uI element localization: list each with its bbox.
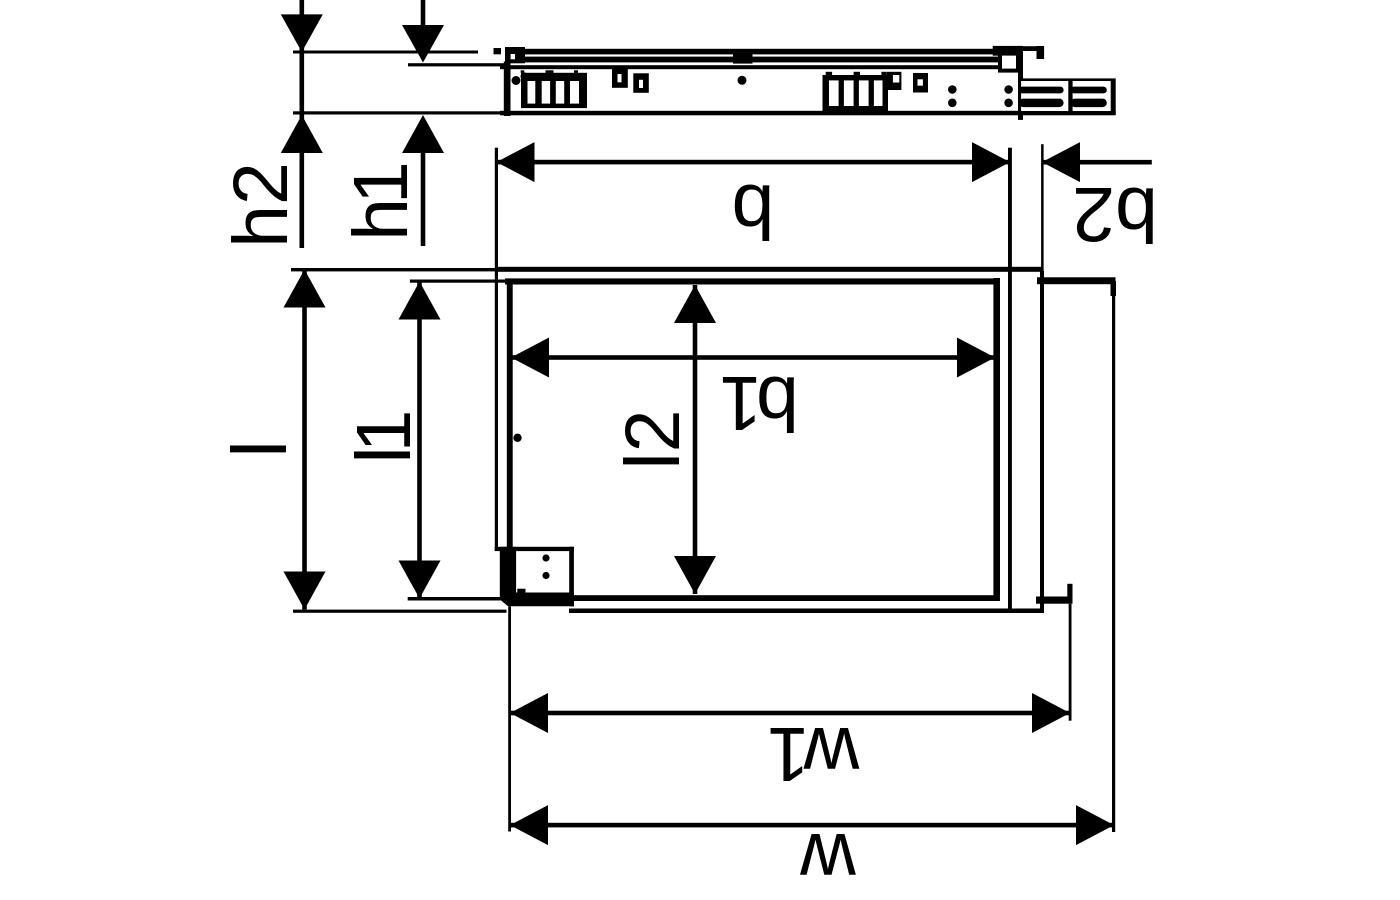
- bracket lug 4: [913, 73, 928, 93]
- dimension w line: [510, 823, 1114, 828]
- top rail lower bar: [509, 57, 1003, 63]
- l2 top arrow: [674, 285, 716, 323]
- w right extension line: [1112, 296, 1115, 832]
- inner frame right bar: [993, 278, 1000, 601]
- svg-text:w: w: [800, 817, 857, 900]
- grill 1: [521, 73, 587, 108]
- svg-text:w1: w1: [770, 711, 861, 797]
- top right wall bracket: [1037, 277, 1116, 284]
- w left arrow: [510, 805, 548, 845]
- inner frame left bar: [507, 280, 513, 601]
- l top arrow: [284, 270, 326, 308]
- top right end cap square: [1037, 46, 1045, 59]
- top view body right edge: [1018, 46, 1023, 120]
- b right arrow: [972, 142, 1010, 182]
- dimension l1 line: [417, 282, 422, 599]
- svg-text:h1: h1: [338, 164, 424, 241]
- bracket lug 1: [612, 68, 628, 88]
- grill 2: [823, 75, 889, 115]
- b2 left extension line: [1041, 144, 1044, 271]
- l top extension line: [291, 268, 498, 271]
- h2 up arrow: [281, 115, 323, 153]
- b left arrow: [497, 142, 535, 182]
- l bottom extension line: [293, 610, 507, 613]
- h2 extension top: [293, 51, 478, 54]
- w1 right arrow: [1032, 693, 1070, 733]
- l1 top arrow: [399, 282, 441, 320]
- b1 right arrow: [957, 338, 995, 378]
- right attachment housing: [1020, 78, 1115, 114]
- dimension b1 line: [511, 355, 995, 360]
- front outer left edge + b extension: [495, 148, 498, 548]
- h1 extension: [408, 63, 505, 66]
- top view body top edge: [500, 65, 1019, 69]
- right open square: [1000, 54, 1018, 71]
- dimension w1 line: [510, 711, 1070, 716]
- inner frame top bar: [505, 278, 999, 284]
- right rail end tab: [993, 46, 1018, 56]
- svg-text:l1: l1: [341, 412, 427, 463]
- bracket lug 3: [887, 72, 901, 90]
- w left extension line: [508, 606, 511, 831]
- front outer right edge: [1040, 271, 1044, 613]
- h1 up arrow: [402, 115, 444, 153]
- top view screws: [512, 76, 521, 85]
- w1 left arrow: [510, 693, 548, 733]
- front outer top edge: [498, 267, 1044, 272]
- h2 down arrow: [300, 0, 305, 248]
- left end tab: [494, 48, 502, 54]
- bottom right wall bracket: [1036, 597, 1073, 604]
- motor box: [495, 547, 574, 551]
- l1 bottom extension line: [408, 597, 501, 601]
- l1 top extension line: [410, 280, 505, 283]
- dimension b line: [498, 160, 1009, 165]
- dimension b2 line: [1043, 160, 1152, 165]
- end cap separation line + b right extension: [1008, 148, 1012, 613]
- w right arrow: [1076, 805, 1114, 845]
- h1 down arrow: [421, 0, 426, 25]
- b1 left arrow: [511, 338, 549, 378]
- svg-text:b: b: [732, 168, 775, 254]
- top view body bottom edge: [500, 111, 1116, 116]
- top rail upper bar: [509, 49, 1003, 55]
- top view body left edge: [504, 62, 511, 117]
- svg-text:h2: h2: [218, 162, 304, 248]
- w1 right extension line: [1069, 604, 1072, 721]
- svg-text:b2: b2: [1072, 171, 1158, 257]
- svg-text:l2: l2: [610, 410, 696, 470]
- b2 arrow: [1042, 142, 1080, 182]
- h2/h1 extension bottom: [293, 111, 500, 114]
- left rail bracket: [505, 47, 525, 63]
- front screw: [513, 434, 521, 442]
- svg-text:b1: b1: [722, 360, 799, 446]
- inner frame bottom bar: [507, 595, 1000, 601]
- svg-text:l: l: [217, 440, 303, 457]
- dimension l line: [302, 270, 307, 610]
- l bottom arrow: [284, 572, 326, 610]
- dimension l2 line: [693, 285, 698, 594]
- l2 bottom arrow: [674, 556, 716, 594]
- bracket lug 2: [633, 73, 649, 93]
- top right stub line: [1014, 46, 1040, 51]
- l1 bottom arrow: [399, 561, 441, 599]
- front outer bottom edge: [569, 609, 1044, 614]
- rail clamp: [733, 50, 753, 64]
